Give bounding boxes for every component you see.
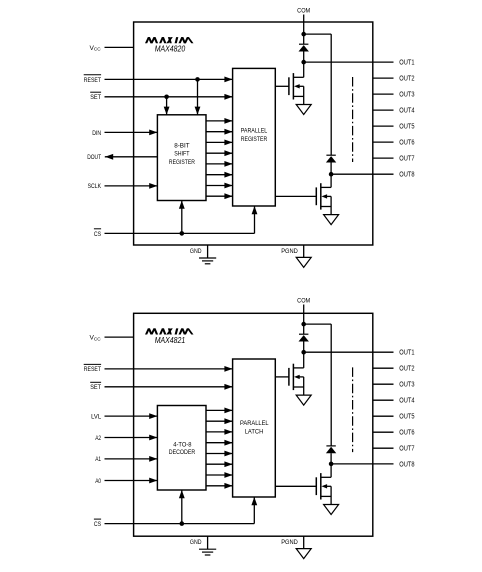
svg-text:MAX4820: MAX4820	[155, 45, 186, 54]
svg-text:OUT6: OUT6	[399, 430, 414, 437]
svg-text:COM: COM	[297, 8, 310, 15]
svg-text:4-TO-8: 4-TO-8	[173, 441, 192, 448]
svg-text:CS: CS	[94, 231, 102, 238]
svg-text:PGND: PGND	[281, 539, 298, 546]
svg-text:OUT7: OUT7	[399, 156, 414, 163]
svg-text:PARALLEL: PARALLEL	[240, 420, 269, 427]
svg-text:OUT3: OUT3	[399, 92, 414, 99]
svg-text:A1: A1	[95, 456, 101, 463]
svg-text:RESET: RESET	[84, 77, 101, 84]
svg-text:SET: SET	[90, 384, 101, 391]
svg-text:OUT3: OUT3	[399, 382, 414, 389]
svg-text:OUT2: OUT2	[399, 366, 414, 373]
svg-text:PARALLEL: PARALLEL	[241, 127, 268, 134]
svg-text:PGND: PGND	[281, 248, 298, 255]
svg-text:OUT4: OUT4	[399, 108, 414, 115]
svg-text:REGISTER: REGISTER	[169, 159, 195, 166]
svg-text:DIN: DIN	[92, 130, 101, 137]
svg-text:RESET: RESET	[84, 366, 101, 373]
svg-text:SHIFT: SHIFT	[174, 151, 189, 158]
svg-text:A0: A0	[95, 478, 101, 485]
svg-text:OUT2: OUT2	[399, 76, 414, 83]
svg-text:LVL: LVL	[91, 414, 101, 421]
svg-text:OUT8: OUT8	[399, 462, 414, 469]
svg-text:CS: CS	[94, 521, 102, 528]
svg-text:GND: GND	[190, 539, 202, 546]
svg-text:OUT7: OUT7	[399, 446, 414, 453]
svg-text:DECODER: DECODER	[169, 449, 196, 456]
svg-text:OUT5: OUT5	[399, 414, 414, 421]
svg-text:COM: COM	[297, 298, 310, 305]
svg-text:OUT1: OUT1	[399, 60, 414, 67]
svg-text:OUT8: OUT8	[399, 172, 414, 179]
svg-text:MAX4821: MAX4821	[155, 336, 185, 345]
svg-text:VCC: VCC	[90, 335, 102, 342]
svg-text:DOUT: DOUT	[87, 154, 101, 161]
svg-text:OUT5: OUT5	[399, 124, 414, 131]
svg-text:REGISTER: REGISTER	[241, 136, 268, 143]
svg-text:OUT1: OUT1	[399, 350, 414, 357]
svg-text:A2: A2	[95, 435, 101, 442]
svg-text:SET: SET	[90, 94, 101, 101]
svg-text:SCLK: SCLK	[88, 183, 102, 190]
svg-text:8-BIT: 8-BIT	[174, 142, 190, 149]
svg-text:LATCH: LATCH	[245, 428, 264, 435]
svg-text:OUT4: OUT4	[399, 398, 414, 405]
svg-text:GND: GND	[190, 248, 202, 255]
svg-text:VCC: VCC	[90, 45, 102, 52]
svg-text:OUT6: OUT6	[399, 140, 414, 147]
